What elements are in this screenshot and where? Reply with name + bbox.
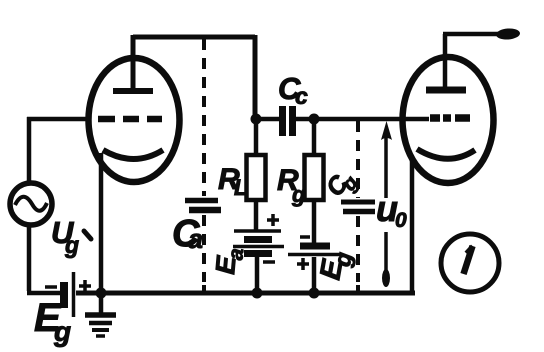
- wire Eg2 to rail: [312, 257, 317, 293]
- wire cathode lead V2: [410, 156, 415, 293]
- resistor Rg leads: [312, 119, 317, 244]
- capacitor Cg plates: [341, 200, 375, 205]
- arrow tick after Ug: [84, 231, 91, 239]
- node Cc left junction: [251, 114, 262, 125]
- battery Ea plate long2: [233, 245, 284, 249]
- anode bar V2: [426, 87, 466, 94]
- terminal blob: [496, 28, 521, 41]
- capacitor Ca dashed line upper: [202, 39, 206, 196]
- figure number 1: [464, 246, 473, 274]
- svg-text:a: a: [224, 247, 248, 261]
- svg-text:c: c: [295, 83, 308, 109]
- capacitor Cc plates: [279, 106, 286, 136]
- label Ca: [172, 213, 203, 255]
- minus sign Ea: [263, 260, 275, 264]
- triode V2 envelope: [403, 57, 494, 183]
- wire right drop from rail to Cc node: [253, 35, 258, 121]
- wire Ea to rail: [255, 256, 260, 293]
- wire anode top to terminal: [443, 32, 505, 37]
- capacitor Cg dashed line lower: [356, 216, 360, 282]
- label Ea rotated: [210, 246, 248, 276]
- svg-text:0: 0: [395, 209, 407, 232]
- arrow u0 shaft upper: [384, 131, 388, 198]
- minus sign Eg2: [300, 235, 310, 239]
- plus sign Eg: [79, 280, 91, 292]
- resistor RL leads: [254, 121, 259, 230]
- grid V2 dashes: [430, 114, 470, 122]
- wire Cc to right node: [296, 117, 429, 122]
- arrow u0 head: [381, 121, 392, 140]
- wire grid lead left: [27, 117, 91, 122]
- wire anode lead V2: [443, 34, 448, 90]
- arrow u0 tail dot: [382, 269, 390, 287]
- svg-text:L: L: [234, 175, 247, 200]
- anode bar V1: [113, 88, 153, 94]
- plus sign Eg2: [297, 258, 309, 270]
- node Cc right junction: [309, 114, 320, 125]
- battery Eg long plate: [72, 272, 76, 317]
- wire AC riser: [27, 117, 32, 183]
- label Eg: [34, 296, 71, 347]
- minus sign Eg: [45, 285, 57, 289]
- wire node to Cc: [256, 117, 280, 122]
- wire cathode lead left: [99, 153, 104, 293]
- wire top rail: [133, 35, 255, 40]
- resistor RL: [247, 155, 266, 200]
- capacitor Cg dashed line upper: [356, 121, 360, 198]
- battery Eg2 short plate: [300, 243, 330, 250]
- arrow u0 shaft lower: [384, 232, 388, 284]
- grid V1 dashes: [98, 116, 162, 123]
- battery Eg short plate: [60, 282, 68, 308]
- battery Ea plate short2: [244, 250, 272, 257]
- triode V1 envelope: [89, 58, 180, 182]
- svg-text:g: g: [53, 316, 71, 347]
- svg-text:a: a: [188, 224, 203, 254]
- plus sign Ea: [267, 214, 279, 226]
- battery Eg2 long plate: [288, 253, 341, 257]
- node cathode-rail junction: [96, 288, 107, 299]
- label Rg: [277, 164, 306, 207]
- AC source G1: [10, 183, 52, 225]
- label Ug: [51, 215, 79, 258]
- wire AC to battery: [27, 224, 61, 293]
- node Eg2-rail junction: [309, 288, 320, 299]
- label Eg2 rotated: [314, 248, 356, 283]
- label Cg rotated: [321, 165, 363, 206]
- node Ea-rail junction: [252, 288, 263, 299]
- capacitor Ca dashed line lower: [202, 215, 206, 282]
- battery Ea plate short1: [244, 236, 272, 243]
- wire anode lead left tube: [131, 35, 136, 89]
- ground: [85, 293, 116, 336]
- cathode V1: [103, 150, 163, 159]
- cathode V2: [417, 149, 475, 159]
- resistor Rg: [305, 155, 324, 200]
- label u0: [376, 188, 407, 232]
- label Cc: [278, 71, 308, 109]
- capacitor Ca plates: [185, 198, 218, 204]
- figure number circle: [441, 234, 499, 292]
- svg-text:g: g: [64, 232, 79, 258]
- sine symbol: [15, 197, 47, 211]
- label RL: [218, 163, 247, 200]
- svg-text:g: g: [291, 182, 306, 207]
- wire bottom rail: [76, 291, 415, 296]
- battery Ea plate long1: [234, 229, 281, 233]
